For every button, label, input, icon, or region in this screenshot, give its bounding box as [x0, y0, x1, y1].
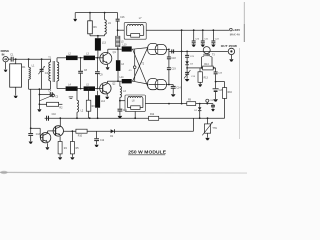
svg-text:C14: C14	[176, 87, 181, 89]
connector J2 output	[228, 48, 234, 54]
wire Q2 emitter ground	[106, 94, 108, 97]
transformer T2 lower core	[148, 79, 159, 90]
trimmer capacitor C15	[186, 68, 188, 72]
choke L10	[122, 46, 132, 51]
svg-text:R12: R12	[150, 114, 155, 116]
page edge smudge	[0, 171, 70, 173]
capacitor C1	[10, 57, 12, 62]
svg-text:+28V: +28V	[233, 28, 241, 32]
capacitor C9 between rows	[96, 58, 98, 72]
wire output line	[169, 50, 228, 52]
wire box2 bottom tap	[134, 111, 136, 118]
wire T1 sec bottom	[56, 81, 58, 89]
choke L14	[122, 79, 132, 83]
diode D1	[111, 129, 115, 133]
wire L1 bottom	[28, 79, 30, 89]
wire L5 to collector row	[117, 47, 119, 50]
svg-text:R14: R14	[204, 64, 209, 66]
trimmer arrow to test point	[39, 96, 51, 101]
capacitor C24	[215, 68, 217, 72]
ground at top line end	[74, 13, 76, 19]
wire Q1 emitter ground	[107, 64, 109, 67]
mark small bars	[69, 96, 73, 98]
connector J1 drive input	[3, 57, 8, 62]
capacitor C19	[168, 59, 170, 67]
ground below rail	[37, 109, 41, 111]
choke L3	[84, 56, 95, 61]
capacitor C21 decoupling	[202, 30, 204, 40]
transformer T1	[49, 62, 51, 81]
resistor R7	[131, 106, 140, 110]
wire to Q2 base	[95, 88, 103, 90]
transistor Q1	[100, 52, 112, 64]
inductor L2b shunt coil	[76, 91, 78, 101]
capacitor C10	[46, 116, 48, 121]
wire L10 to T2	[131, 48, 134, 50]
wire T3 secondary leads	[202, 55, 204, 58]
page crease faint line	[239, 48, 241, 139]
wire Q1 collector	[107, 49, 109, 53]
ground below R1	[14, 96, 18, 98]
wire R1 to ground	[15, 87, 17, 95]
wire rail drop long	[181, 30, 183, 103]
feedback network box upper	[124, 23, 146, 40]
svg-text:C19: C19	[171, 69, 176, 71]
capacitor C22 decoupling	[212, 30, 214, 40]
inductor L6 coil	[119, 81, 121, 86]
node input dots	[15, 58, 17, 60]
trimmer capacitor C2	[41, 59, 43, 69]
wire connector to ground	[5, 62, 7, 69]
capacitor C18	[168, 49, 170, 56]
wire L6 to node	[119, 97, 121, 100]
svg-text:C16: C16	[120, 17, 125, 19]
resistor R4	[59, 136, 61, 141]
resistor R14	[203, 66, 214, 70]
wire L14 to T2	[131, 80, 134, 82]
wire R9 right	[196, 103, 213, 105]
svg-text:OUT 250W: OUT 250W	[221, 44, 237, 48]
resistor R13	[199, 68, 201, 72]
wire Q3 emitter ground	[46, 143, 48, 147]
wire base row lower	[78, 88, 84, 90]
resistor R5	[71, 131, 73, 141]
svg-text:R10: R10	[78, 136, 83, 138]
wire to Q3 base	[31, 127, 41, 129]
wire to Q1 base	[95, 57, 103, 59]
wire node to box2	[120, 100, 125, 102]
svg-text:C18: C18	[171, 58, 176, 60]
resistor R3	[88, 91, 90, 101]
capacitor C16	[117, 13, 119, 19]
svg-text:IN: IN	[2, 52, 5, 56]
choke L4	[66, 86, 78, 91]
capacitor C14 to ground	[169, 84, 173, 86]
wire to feedback box	[118, 29, 125, 31]
svg-text:L13: L13	[102, 41, 107, 44]
resistor R6	[89, 13, 91, 21]
inductor L1	[28, 59, 30, 67]
resistor R2	[39, 103, 46, 105]
svg-text:MAX 4A: MAX 4A	[230, 32, 240, 36]
svg-text:TH1: TH1	[212, 128, 217, 130]
ground below J1	[4, 70, 8, 72]
wire bottom bus	[29, 88, 51, 90]
wire T1 sec top	[56, 58, 58, 62]
diode D3	[186, 58, 188, 62]
page corner tick	[243, 2, 245, 24]
wire top bias line	[75, 12, 117, 14]
svg-text:250 W MODULE: 250 W MODULE	[128, 149, 167, 155]
transistor Q4	[53, 126, 63, 136]
choke L12 bias feed	[97, 91, 99, 96]
wire Q3 collector to Q4 base	[47, 131, 49, 133]
capacitor C25 electrolytic	[215, 82, 217, 89]
resistor R9	[187, 102, 196, 106]
choke L13	[97, 36, 99, 38]
svg-text:C12: C12	[100, 140, 105, 142]
wire input line	[13, 58, 50, 60]
wire T1 primary bottom	[50, 81, 52, 89]
capacitor C8 between rows	[80, 58, 82, 71]
wire T2 secondary right	[166, 48, 169, 50]
wire box1 internal	[126, 26, 128, 36]
wire box2 internal	[127, 98, 129, 108]
wire R14 right	[213, 67, 215, 69]
test point TP1	[206, 102, 208, 103]
inductor L9	[104, 13, 106, 20]
inductor L7	[127, 24, 143, 26]
terminal +28V	[230, 28, 233, 31]
wire box2 to detector	[145, 103, 186, 105]
transformer T2 crossing wires	[133, 48, 148, 50]
wire Q2 collector	[106, 81, 108, 83]
capacitor C20 decoupling	[193, 30, 195, 40]
wire long vertical	[30, 89, 32, 128]
capacitor C12	[96, 131, 98, 138]
svg-text:R13: R13	[204, 77, 209, 79]
feedback network box lower	[125, 95, 145, 111]
inductor L8	[128, 97, 142, 98]
choke L5	[84, 86, 95, 91]
capacitor C11	[119, 101, 121, 109]
wire T1 primary top	[50, 59, 52, 62]
wire supply rail	[146, 29, 229, 31]
svg-text:C10: C10	[52, 114, 57, 116]
winding L5	[116, 36, 120, 46]
ground below J2	[230, 55, 232, 59]
transistor Q2	[100, 83, 111, 94]
wire ground rail	[38, 89, 40, 109]
capacitor C4	[39, 94, 50, 96]
capacitor C13	[30, 128, 32, 133]
wire WB2 bias line	[64, 130, 194, 132]
diode D2	[199, 104, 201, 108]
wire Q4 collector up	[59, 118, 61, 126]
transistor Q3	[40, 133, 50, 143]
resistor R16	[216, 81, 225, 83]
capacitor C27 to ground	[212, 104, 214, 105]
wire R6 L9 bottom join	[89, 34, 91, 36]
thermistor TH1	[207, 118, 209, 124]
resistor R8	[131, 34, 140, 38]
resistor R10	[76, 129, 87, 133]
resistor R1	[15, 59, 17, 64]
transformer T3 core	[203, 47, 210, 54]
wire bias bus WB1	[45, 117, 225, 119]
choke L2	[66, 56, 78, 61]
resistor R12	[149, 116, 159, 120]
wire T2 center tap	[134, 49, 136, 81]
svg-text:R16: R16	[228, 92, 233, 94]
transformer T2 upper core	[148, 43, 159, 54]
transformer T3 winding	[203, 54, 205, 56]
wire detector row	[187, 67, 203, 69]
capacitor C23	[186, 51, 188, 55]
wire base row upper	[78, 57, 84, 59]
wire L13 to Q1 base node	[97, 51, 99, 58]
choke L15 center	[117, 49, 119, 60]
